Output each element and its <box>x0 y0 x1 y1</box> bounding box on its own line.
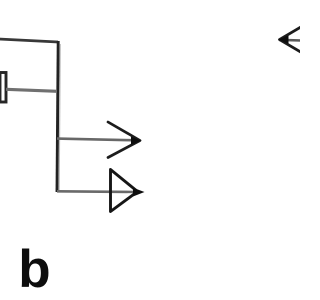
arrowhead left-pointing (open chevron) <box>280 20 314 59</box>
wire lower output <box>57 190 140 193</box>
wire vertical bus scan ghost <box>59 44 60 190</box>
component box (clipped at left edge) <box>0 73 6 103</box>
svg-text:b: b <box>18 240 50 299</box>
arrowhead upper solid tip <box>131 137 142 146</box>
arrowhead left-pointing solid tip <box>278 35 288 44</box>
arrowhead lower solid tip <box>133 188 145 197</box>
wire vertical bus <box>57 41 58 192</box>
wire right (tail of left-pointing arrow, clipped at right edge) <box>279 38 301 41</box>
wire from box to vertical bus <box>6 89 57 91</box>
open triangle arrowhead (buffer symbol) <box>111 170 138 212</box>
wire upper output <box>57 139 136 141</box>
wire top horizontal <box>0 39 58 42</box>
arrowhead upper (open chevron) <box>108 122 140 158</box>
